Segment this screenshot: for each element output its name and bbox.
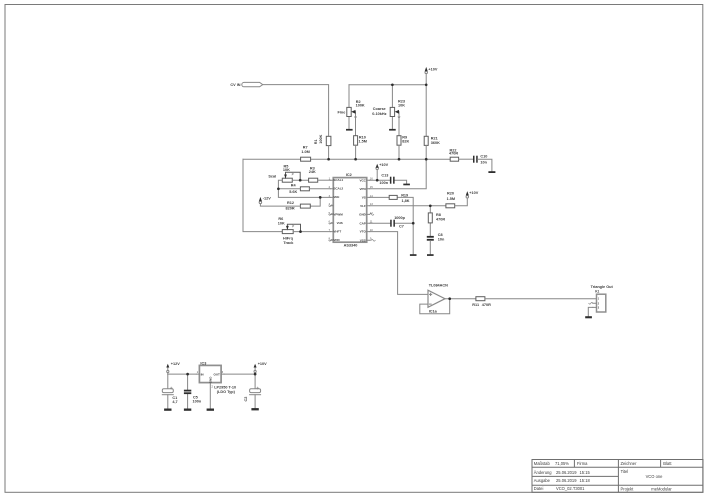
- power +10V (top right of pots): [425, 67, 428, 85]
- svg-text:10n: 10n: [480, 161, 487, 165]
- wire C5 branch: [187, 374, 189, 408]
- svg-text:1000p: 1000p: [394, 216, 405, 220]
- svg-text:Coarse: Coarse: [373, 107, 386, 111]
- connector K1 Triangle Out: [589, 294, 606, 312]
- wire VCC net: [370, 180, 407, 183]
- resistor R3: [309, 178, 318, 182]
- wire scal pot left down: [278, 180, 330, 197]
- svg-text:TL084ACN: TL084ACN: [429, 283, 448, 287]
- wire CAP net to C7: [370, 222, 414, 224]
- svg-text:K1: K1: [595, 290, 599, 294]
- wire R21 to bus to VPO pin: [370, 145, 427, 188]
- resistor R21: [424, 136, 428, 145]
- svg-text:470R: 470R: [482, 303, 491, 307]
- svg-text:C7: C7: [399, 225, 404, 229]
- svg-text:25.06.2019: 25.06.2019: [556, 470, 577, 475]
- wire K1 pin3 to ground: [588, 307, 593, 316]
- wire main bus y158: [243, 158, 450, 160]
- wire VEE branch down to R12: [310, 197, 320, 206]
- ground (Fine pot): [346, 129, 353, 131]
- wire VS net to R19: [370, 197, 414, 254]
- resistor R10: [354, 136, 358, 146]
- svg-text:(LDO Typ): (LDO Typ): [217, 390, 236, 394]
- svg-text:+10V: +10V: [379, 163, 388, 167]
- svg-text:VCO one: VCO one: [646, 474, 664, 479]
- op-amp IC1a: [428, 290, 445, 307]
- svg-text:VSS: VSS: [360, 238, 366, 242]
- svg-text:100K: 100K: [319, 134, 323, 143]
- capacitor C5: [184, 390, 191, 394]
- svg-text:IN: IN: [201, 372, 204, 376]
- ground (C5): [184, 409, 191, 411]
- wire +10V top bus: [349, 85, 426, 137]
- junction R10/bus: [354, 158, 357, 161]
- svg-text:+12V: +12V: [171, 362, 180, 366]
- svg-text:CV IN: CV IN: [230, 83, 240, 87]
- svg-text:25.06.2019: 25.06.2019: [556, 478, 577, 483]
- svg-text:Projekt: Projekt: [621, 486, 635, 491]
- svg-text:R21: R21: [431, 137, 438, 141]
- svg-text:VCO_02.T3001: VCO_02.T3001: [556, 486, 585, 491]
- ground (IC3 GND): [207, 409, 214, 411]
- svg-text:R6: R6: [278, 217, 283, 221]
- wire C10 to ground: [478, 159, 492, 171]
- wire op-amp output: [445, 298, 476, 300]
- power +10V (R20): [466, 191, 469, 198]
- svg-text:0-10kHz: 0-10kHz: [372, 112, 386, 116]
- nc squiggle LIN pin: [329, 205, 333, 207]
- capacitor C8: [427, 236, 434, 241]
- resistor R20: [446, 204, 455, 208]
- ground (K1): [585, 316, 592, 318]
- svg-text:GND: GND: [208, 376, 212, 384]
- svg-text:1,8K: 1,8K: [402, 199, 410, 203]
- junction C7/ground line: [412, 222, 415, 225]
- svg-text:R7: R7: [303, 146, 308, 150]
- svg-text:+10V: +10V: [258, 362, 267, 366]
- resistor R19: [389, 195, 397, 199]
- svg-text:IC3: IC3: [200, 361, 206, 365]
- ground (C8): [427, 254, 434, 256]
- ground (C13): [403, 184, 410, 186]
- svg-text:360K: 360K: [431, 141, 440, 145]
- svg-text:Scal: Scal: [268, 175, 276, 179]
- wire R1 to bus: [328, 146, 330, 160]
- nc squiggle VPWM pin: [329, 214, 333, 216]
- svg-text:4,7: 4,7: [172, 400, 177, 404]
- connector CV IN: [242, 82, 263, 86]
- svg-text:VPO: VPO: [359, 187, 366, 191]
- svg-text:C13: C13: [381, 174, 388, 178]
- svg-text:1.5M: 1.5M: [359, 139, 367, 143]
- svg-text:Ausgabe: Ausgabe: [534, 478, 551, 483]
- junction VEE/R12: [319, 196, 322, 199]
- wire left bus down: [243, 159, 282, 231]
- wire C2 branch: [254, 374, 256, 408]
- wire C1 branch: [167, 374, 169, 408]
- svg-text:82K: 82K: [402, 139, 409, 143]
- capacitor C10: [473, 156, 478, 163]
- resistor R22: [450, 157, 458, 161]
- svg-text:C10: C10: [480, 154, 487, 158]
- IC2 pin numbers: [197, 178, 374, 389]
- svg-text:Zeichner: Zeichner: [621, 461, 638, 466]
- svg-text:15:15: 15:15: [580, 470, 591, 475]
- potentiometer R5 (Scal): [282, 172, 300, 182]
- IC2 AS3340 box: [330, 178, 369, 243]
- wire R9 to bus: [398, 145, 400, 159]
- svg-text:R20: R20: [447, 191, 454, 195]
- capacitor C1 electrolytic: [162, 387, 173, 395]
- svg-text:R1: R1: [314, 139, 318, 144]
- capacitor C2 electrolytic: [250, 387, 261, 395]
- ground (Coarse pot): [389, 129, 396, 131]
- nc squiggle VSS pin right: [370, 239, 376, 241]
- svg-text:IC1a: IC1a: [429, 310, 438, 314]
- power +10V (regulator out): [254, 364, 257, 374]
- wire op-amp feedback: [420, 299, 450, 314]
- svg-text:R8: R8: [436, 213, 441, 217]
- svg-text:-12V: -12V: [263, 196, 271, 200]
- svg-text:AS3340: AS3340: [344, 244, 358, 248]
- svg-text:Track: Track: [283, 241, 294, 245]
- power +10V (VCC): [376, 164, 379, 181]
- svg-text:VHS: VHS: [337, 221, 343, 225]
- svg-text:1.0M: 1.0M: [301, 150, 309, 154]
- junction op-amp output: [448, 297, 451, 300]
- svg-text:C8: C8: [438, 233, 443, 237]
- svg-text:100n: 100n: [193, 399, 202, 403]
- potentiometer R23 (Coarse): [390, 85, 400, 136]
- junction +10V rail/C2: [254, 373, 257, 376]
- svg-text:Titel: Titel: [621, 469, 629, 474]
- svg-text:CAP: CAP: [359, 221, 365, 225]
- svg-text:24K: 24K: [309, 170, 316, 174]
- svg-text:820R: 820R: [286, 206, 295, 210]
- title block frame: [532, 460, 703, 493]
- svg-text:SCAL1: SCAL1: [333, 178, 343, 182]
- nc squiggle VDD pin: [329, 239, 333, 241]
- nc squiggle GND pin right: [370, 214, 374, 216]
- svg-text:470R: 470R: [449, 152, 458, 156]
- ground (C2): [251, 408, 258, 410]
- junction R1/bus: [327, 158, 330, 161]
- wire C8 to ground: [429, 241, 431, 255]
- svg-text:Datei: Datei: [534, 486, 544, 491]
- junction VCC/+10V: [376, 179, 379, 182]
- svg-text:100K: 100K: [356, 104, 365, 108]
- svg-text:R19: R19: [401, 193, 408, 197]
- svg-text:Fine: Fine: [338, 111, 346, 115]
- svg-text:Firma: Firma: [577, 461, 588, 466]
- svg-text:SCAL2: SCAL2: [333, 187, 343, 191]
- junction R6 wiper: [299, 230, 302, 233]
- svg-text:VS: VS: [362, 196, 366, 200]
- svg-text:meModular: meModular: [651, 486, 672, 491]
- svg-text:10K: 10K: [398, 104, 405, 108]
- junction R5 wiper: [299, 179, 302, 182]
- svg-text:10n: 10n: [438, 238, 445, 242]
- ground (C10): [488, 171, 495, 173]
- svg-text:Triangle Out: Triangle Out: [591, 285, 614, 289]
- resistor R1: [326, 136, 331, 145]
- svg-text:OUT: OUT: [214, 372, 221, 376]
- resistor R9: [397, 136, 401, 146]
- junction R23 top / +10V bus: [391, 83, 394, 86]
- svg-text:VLF: VLF: [360, 204, 366, 208]
- wire R6 to VHFT pin: [293, 231, 330, 233]
- svg-text:100n: 100n: [379, 181, 388, 185]
- junction VLF/R8: [429, 204, 432, 207]
- svg-text:VTO: VTO: [360, 230, 367, 234]
- svg-text:15:18: 15:18: [580, 478, 591, 483]
- svg-text:HiFrq: HiFrq: [283, 236, 294, 240]
- svg-text:R11: R11: [472, 303, 479, 307]
- wire +12V to IC3 IN: [168, 373, 197, 375]
- ground (C1): [164, 409, 171, 411]
- svg-text:+10V: +10V: [469, 191, 478, 195]
- wire R20 to +10V: [455, 198, 468, 206]
- svg-text:10K: 10K: [283, 168, 290, 172]
- IC pin names: [201, 178, 600, 383]
- svg-text:VDD: VDD: [333, 238, 340, 242]
- svg-text:R12: R12: [287, 201, 294, 205]
- resistor R4: [300, 187, 309, 191]
- svg-text:IC2: IC2: [346, 173, 352, 177]
- ground (R19/C7): [410, 254, 417, 256]
- wire R10 to bus: [355, 145, 357, 159]
- wire R12 to -12V: [260, 204, 300, 207]
- junction R4 left: [277, 187, 280, 190]
- svg-text:VPWM: VPWM: [333, 212, 343, 216]
- junction R9/bus: [398, 158, 401, 161]
- resistor R7: [301, 157, 311, 161]
- junction +10V bus corner: [425, 84, 428, 87]
- svg-text:GND: GND: [359, 213, 367, 217]
- wire R22 to C10: [459, 158, 473, 160]
- junction R21/bus/VPO: [425, 158, 428, 161]
- junction C5/+12V rail: [186, 373, 189, 376]
- potentiometer R6 (HiFrq Track): [282, 224, 300, 233]
- svg-text:Maßstab: Maßstab: [534, 461, 551, 466]
- svg-text:Blatt: Blatt: [663, 461, 672, 466]
- svg-text:VEE: VEE: [333, 195, 339, 199]
- wire R8 branch: [429, 206, 431, 236]
- capacitor C7: [390, 220, 395, 227]
- svg-text:5.6K: 5.6K: [289, 190, 297, 194]
- power -12V: [259, 201, 262, 204]
- wire R3 to SCAL1 pin: [318, 179, 331, 181]
- resistor R12: [300, 204, 310, 208]
- svg-text:C2: C2: [244, 397, 248, 402]
- svg-text:VHFT: VHFT: [333, 230, 341, 234]
- resistor R11: [476, 297, 485, 301]
- svg-text:1.5M: 1.5M: [447, 197, 455, 201]
- wire CV IN to R1: [263, 85, 329, 137]
- wire R11 to K1: [485, 298, 596, 300]
- wire scal line: [292, 179, 308, 181]
- svg-text:10K: 10K: [278, 222, 285, 226]
- svg-text:+10V: +10V: [428, 67, 437, 71]
- wire VTO net: [370, 232, 428, 295]
- wire IC3 OUT to +10V: [224, 373, 255, 375]
- resistor R8: [428, 213, 432, 223]
- nc squiggle VHS pin: [329, 222, 333, 224]
- svg-text:Änderung: Änderung: [534, 470, 552, 475]
- power +12V input: [166, 364, 169, 374]
- IC3 LP2950 box: [196, 365, 224, 408]
- svg-text:VCC: VCC: [359, 178, 366, 182]
- TITLE BLOCK: [532, 460, 703, 493]
- svg-text:71,05%: 71,05%: [555, 461, 569, 466]
- wire VLF net: [370, 205, 446, 207]
- svg-text:470R: 470R: [436, 218, 445, 222]
- potentiometer R2 (Fine): [347, 85, 357, 136]
- capacitor C13: [390, 177, 395, 184]
- wire R4 leads: [278, 188, 330, 190]
